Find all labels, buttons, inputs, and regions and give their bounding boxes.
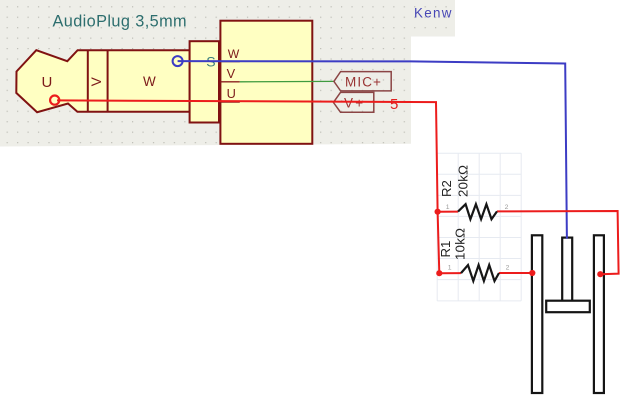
resistor R1 zigzag [461, 265, 499, 281]
svg-text:20kΩ: 20kΩ [456, 165, 471, 197]
jack socket middle contact base (T bar) [546, 301, 590, 313]
plug section divider (left of V ring) [87, 50, 89, 111]
svg-text:W: W [228, 47, 240, 61]
blue wire (sleeve S net): horizontal then down to jack middle contact [178, 61, 567, 239]
connector body rectangle [220, 21, 312, 144]
svg-text:10kΩ: 10kΩ [453, 228, 468, 260]
wire R1 pin1 stub [439, 272, 461, 274]
open pin circle (red, tip contact) [50, 96, 59, 105]
canvas dot grid [0, 0, 455, 147]
connector J1 audio plug body (tip + shaft) [16, 50, 189, 112]
jack socket middle contact bar [562, 238, 572, 302]
svg-text:V: V [89, 77, 104, 86]
global label MIC+ [334, 72, 391, 91]
plug collar [190, 41, 219, 122]
pin stub W [220, 61, 239, 63]
junction dot at jack right contact [597, 271, 603, 277]
pin stub U [220, 101, 239, 103]
global label V+ [333, 92, 373, 112]
svg-text:1: 1 [448, 265, 452, 272]
svg-text:1: 1 [446, 204, 450, 211]
junction dot at R2 pin1 [435, 209, 441, 215]
green wire MIC+ net [240, 80, 334, 82]
junction dot at jack left contact [529, 270, 535, 276]
open pin circle (blue, sleeve contact) [173, 56, 183, 66]
red wire V+ net: from tip contact to the right, then down [57, 100, 439, 273]
faint grid (resistor area) [437, 153, 521, 301]
svg-text:2: 2 [505, 204, 509, 211]
svg-text:V: V [227, 66, 236, 81]
schematic canvas background (grey) [0, 0, 455, 147]
svg-text:2: 2 [506, 264, 510, 271]
wire R1 pin2 to jack left contact [499, 272, 532, 274]
svg-text:U: U [41, 74, 52, 91]
svg-text:W: W [143, 74, 156, 89]
svg-text:5: 5 [390, 96, 398, 113]
svg-text:R2: R2 [439, 180, 454, 197]
resistor R2 zigzag [458, 204, 497, 219]
svg-text:MIC+: MIC+ [345, 75, 382, 90]
wire R2 pin2 to jack right contact [497, 211, 619, 274]
svg-text:Kenw: Kenw [414, 5, 453, 20]
pin stub V [220, 81, 239, 83]
svg-text:V+: V+ [344, 96, 365, 111]
plug section divider (right of V ring) [107, 50, 109, 111]
wire R2 pin1 stub [438, 211, 458, 213]
svg-text:AudioPlug 3,5mm: AudioPlug 3,5mm [53, 12, 188, 30]
jack socket right contact bar [594, 235, 604, 393]
svg-text:U: U [227, 86, 236, 101]
svg-text:R1: R1 [438, 241, 453, 258]
jack socket left contact bar [532, 235, 542, 393]
junction dot at R1 pin1 [436, 270, 442, 276]
